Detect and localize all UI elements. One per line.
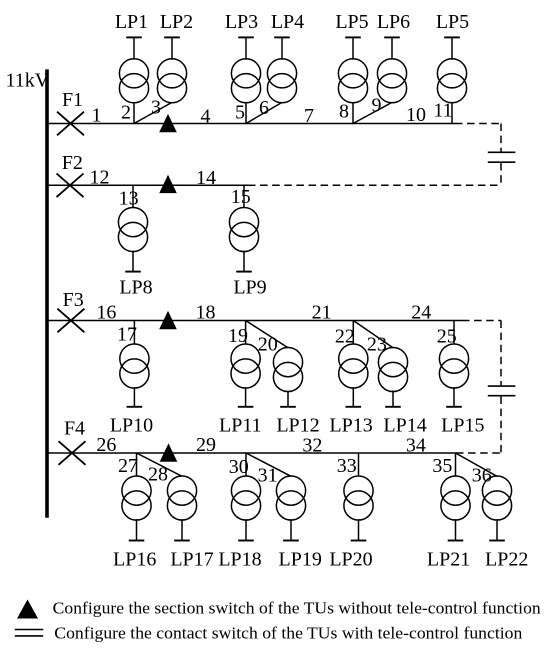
svg-text:13: 13 bbox=[119, 188, 139, 210]
svg-text:LP20: LP20 bbox=[329, 549, 372, 571]
section switch (filled triangle) on feeder 3 bbox=[159, 311, 177, 329]
wire stem junction to LP13 (switch 22) bbox=[352, 321, 354, 345]
wire stem junction to LP1 (switch 2) bbox=[133, 102, 135, 123]
circuit breaker F4 bbox=[59, 441, 86, 465]
svg-text:12: 12 bbox=[90, 167, 110, 189]
svg-text:LP14: LP14 bbox=[383, 415, 426, 437]
section switch (filled triangle) on feeder 1 bbox=[159, 114, 177, 132]
tie line F3-F4 vertical dashed (lower) bbox=[500, 397, 502, 454]
transformer LP4 bbox=[267, 37, 296, 102]
svg-text:LP22: LP22 bbox=[485, 549, 528, 571]
transformer LP17 bbox=[167, 476, 196, 541]
wire diagonal junction to LP2 (switch 3) bbox=[134, 102, 172, 123]
transformer LP11 bbox=[231, 344, 260, 407]
wire diagonal junction to LP17 (switch 28) bbox=[137, 453, 183, 476]
tie line F1-F2 vertical dashed (upper) bbox=[500, 124, 502, 152]
svg-text:3: 3 bbox=[151, 97, 161, 119]
feeder 4 tie wire (dashed) bbox=[456, 452, 501, 454]
svg-text:35: 35 bbox=[432, 455, 452, 477]
svg-text:9: 9 bbox=[372, 95, 382, 117]
svg-text:LP6: LP6 bbox=[377, 11, 410, 33]
transformer LP14 bbox=[378, 348, 407, 407]
transformer LP2 bbox=[157, 37, 186, 102]
transformer LP19 bbox=[276, 476, 305, 541]
svg-text:34: 34 bbox=[406, 435, 426, 457]
svg-text:LP9: LP9 bbox=[233, 277, 266, 299]
feeder 2 tie wire (dashed) bbox=[248, 184, 501, 186]
svg-text:LP5: LP5 bbox=[335, 11, 368, 33]
transformer LP10 bbox=[120, 344, 149, 407]
svg-text:LP16: LP16 bbox=[113, 549, 156, 571]
svg-text:LP11: LP11 bbox=[219, 415, 262, 437]
svg-text:29: 29 bbox=[196, 434, 216, 456]
svg-text:17: 17 bbox=[117, 324, 137, 346]
legend: contact switch symbol (double line) bbox=[15, 630, 43, 636]
svg-text:20: 20 bbox=[258, 334, 278, 356]
wire stem junction to LP16 (switch 27) bbox=[136, 453, 138, 477]
wire stem junction to LP11 (switch 19) bbox=[245, 321, 247, 345]
wire stem junction to LP10 (switch 17) bbox=[133, 321, 135, 345]
svg-text:F3: F3 bbox=[63, 289, 84, 311]
svg-text:F2: F2 bbox=[62, 152, 83, 174]
svg-text:LP21: LP21 bbox=[427, 549, 470, 571]
svg-text:14: 14 bbox=[196, 167, 216, 189]
transformer LP22 bbox=[482, 476, 511, 541]
svg-text:6: 6 bbox=[259, 97, 269, 119]
svg-text:Configure the contact switch o: Configure the contact switch of the TUs … bbox=[54, 624, 523, 643]
wire stem junction to LP15 (switch 25) bbox=[453, 321, 455, 345]
svg-text:LP13: LP13 bbox=[329, 415, 372, 437]
svg-text:LP12: LP12 bbox=[276, 415, 319, 437]
feeder 3 tie wire (dashed) bbox=[462, 320, 501, 322]
svg-text:27: 27 bbox=[118, 455, 138, 477]
transformer LP13 bbox=[339, 344, 368, 407]
circuit breaker F2 bbox=[57, 174, 84, 198]
svg-text:28: 28 bbox=[148, 464, 168, 486]
svg-text:Configure the section switch o: Configure the section switch of the TUs … bbox=[53, 598, 542, 617]
svg-text:LP5: LP5 bbox=[436, 11, 469, 33]
wire diagonal junction to LP14 (switch 23) bbox=[353, 321, 393, 348]
svg-text:1: 1 bbox=[92, 105, 102, 127]
11kV bus bar bbox=[45, 69, 49, 517]
legend: section switch symbol (filled triangle) bbox=[17, 600, 38, 619]
tie line F3-F4 vertical dashed (upper) bbox=[500, 321, 502, 386]
circuit breaker F3 bbox=[57, 309, 84, 333]
svg-text:F1: F1 bbox=[62, 89, 83, 111]
wire stem junction to LP5b (switch 11) bbox=[451, 102, 453, 123]
svg-text:15: 15 bbox=[231, 186, 251, 208]
svg-text:LP15: LP15 bbox=[441, 415, 484, 437]
wire stem junction to LP18 (switch 30) bbox=[245, 453, 247, 477]
wire diagonal junction to LP19 (switch 31) bbox=[246, 453, 291, 476]
transformer LP15 bbox=[439, 344, 468, 407]
svg-text:LP3: LP3 bbox=[225, 11, 258, 33]
svg-text:LP1: LP1 bbox=[115, 11, 148, 33]
svg-text:36: 36 bbox=[472, 465, 492, 487]
feeder 1 tie wire (dashed) bbox=[455, 123, 501, 125]
svg-text:LP2: LP2 bbox=[160, 11, 193, 33]
svg-text:2: 2 bbox=[121, 102, 131, 124]
svg-text:7: 7 bbox=[304, 105, 314, 127]
svg-text:LP17: LP17 bbox=[170, 549, 213, 571]
contact switch (normally-open, two plates) tie 2 bbox=[488, 386, 516, 396]
transformer LP1 bbox=[119, 37, 148, 102]
wire stem junction to LP21 (switch 35) bbox=[455, 453, 457, 477]
svg-text:30: 30 bbox=[229, 456, 249, 478]
svg-text:LP8: LP8 bbox=[119, 277, 152, 299]
svg-text:21: 21 bbox=[312, 302, 332, 324]
svg-text:F4: F4 bbox=[64, 418, 85, 440]
wire stem junction to LP9 (switch 15) bbox=[243, 185, 245, 208]
wire diagonal junction to LP22 (switch 36) bbox=[456, 453, 498, 476]
feeder 2 wire (solid) bbox=[48, 184, 248, 186]
wire stem junction to LP5 (switch 8) bbox=[352, 102, 354, 123]
transformer LP9 bbox=[229, 208, 258, 272]
transformer LP8 bbox=[118, 208, 147, 272]
tie line F1-F2 vertical dashed (lower) bbox=[500, 163, 502, 185]
svg-text:LP19: LP19 bbox=[279, 549, 322, 571]
svg-text:33: 33 bbox=[337, 455, 357, 477]
wire diagonal junction to LP4 (switch 6) bbox=[246, 102, 282, 123]
feeder 1 wire (solid) bbox=[48, 123, 455, 125]
svg-text:18: 18 bbox=[196, 302, 216, 324]
feeder 3 wire (solid) bbox=[48, 320, 462, 322]
wire stem junction to LP8 (switch 13) bbox=[132, 185, 134, 208]
svg-text:5: 5 bbox=[235, 102, 245, 124]
wire stem junction to LP3 (switch 5) bbox=[245, 102, 247, 123]
svg-text:16: 16 bbox=[96, 302, 116, 324]
feeder 4 wire (solid) bbox=[48, 452, 456, 454]
transformer LP3 bbox=[231, 37, 260, 102]
transformer LP5b bbox=[437, 37, 466, 102]
transformer LP12 bbox=[273, 348, 302, 407]
svg-text:4: 4 bbox=[201, 106, 211, 128]
contact switch (normally-open, two plates) tie 1 bbox=[488, 152, 516, 162]
svg-text:10: 10 bbox=[406, 104, 426, 126]
svg-text:8: 8 bbox=[339, 101, 349, 123]
wire stem junction to LP20 (switch 33) bbox=[358, 453, 360, 477]
svg-text:32: 32 bbox=[302, 435, 322, 457]
svg-text:24: 24 bbox=[411, 302, 431, 324]
svg-text:LP18: LP18 bbox=[218, 549, 261, 571]
transformer LP21 bbox=[441, 476, 470, 541]
transformer LP20 bbox=[344, 476, 373, 541]
section switch (filled triangle) on feeder 4 bbox=[160, 443, 178, 461]
svg-text:LP4: LP4 bbox=[271, 11, 304, 33]
transformer LP5 bbox=[338, 37, 367, 102]
svg-text:26: 26 bbox=[96, 434, 116, 456]
section switch (filled triangle) on feeder 2 bbox=[159, 175, 177, 193]
wire diagonal junction to LP12 (switch 20) bbox=[246, 321, 288, 348]
svg-text:31: 31 bbox=[258, 465, 278, 487]
transformer LP16 bbox=[122, 476, 151, 541]
wire diagonal junction to LP6 (switch 9) bbox=[353, 102, 392, 123]
transformer LP6 bbox=[377, 37, 406, 102]
circuit breaker F1 bbox=[57, 112, 84, 136]
svg-text:11kV: 11kV bbox=[6, 70, 50, 92]
transformer LP18 bbox=[231, 476, 260, 541]
svg-text:23: 23 bbox=[367, 334, 387, 356]
